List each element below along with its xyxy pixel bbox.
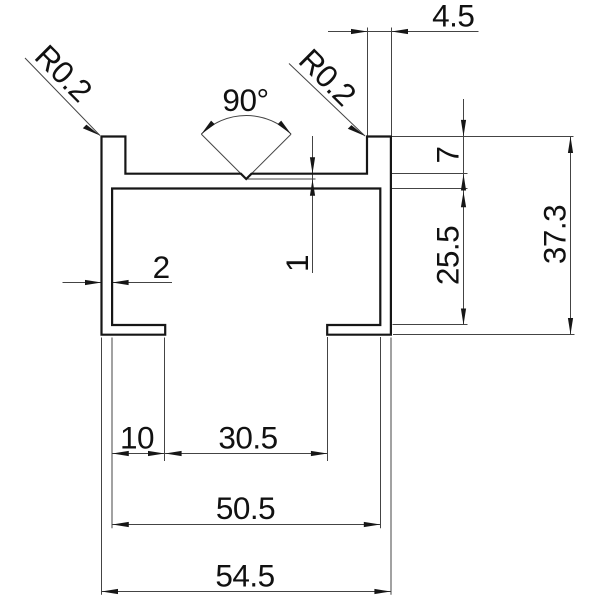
svg-text:54.5: 54.5 [215, 558, 274, 594]
svg-text:25.5: 25.5 [430, 226, 466, 285]
arrow leader R0.2 left [83, 125, 100, 136]
extension line V apex level [246, 178, 315, 180]
arrow 54.5 right [374, 589, 391, 594]
extension line flange top y=324.8 [393, 324, 468, 326]
extension line x=164.9 bottom [164, 338, 166, 462]
arrow angle arc left [201, 121, 215, 135]
arrow 54.5 left [102, 589, 119, 594]
arrow 10 right [148, 451, 165, 456]
dimension line 2 left tail [63, 282, 102, 284]
arrow leader R0.2 right [348, 125, 365, 136]
svg-text:37.3: 37.3 [537, 205, 573, 264]
angle leg left [201, 134, 246, 179]
arrow 7 top [461, 120, 466, 136]
extension line 4.5 right [391, 28, 393, 137]
svg-text:4.5: 4.5 [432, 0, 474, 34]
extension line x=327.6 bottom [327, 337, 329, 461]
dimension line 54.5 [102, 591, 391, 593]
dimension line 2 right tail [112, 282, 172, 284]
svg-text:90°: 90° [222, 82, 268, 118]
svg-text:7: 7 [430, 146, 466, 163]
profile outline [102, 137, 391, 335]
arrow 50.5 left [112, 522, 129, 527]
arrow 25.5 bottom [461, 309, 466, 326]
svg-text:R0.2: R0.2 [28, 37, 99, 108]
extension line ceiling y=188.3 [392, 188, 468, 190]
arrow 30.5 right [311, 451, 328, 456]
angle arc 90 [201, 116, 291, 135]
arrow 50.5 right [364, 522, 381, 527]
arrow 1 top [310, 157, 315, 174]
dimension line 4.5 [328, 31, 479, 33]
arrow 37.3 bottom [568, 318, 573, 335]
arrow 7 bottom [461, 174, 466, 191]
arrow angle arc right [278, 121, 292, 135]
dimension line 10 and 30.5 [112, 453, 327, 455]
svg-text:10: 10 [120, 420, 154, 456]
arrow 30.5 left [165, 451, 182, 456]
leader R0.2 right [289, 64, 365, 137]
svg-text:2: 2 [153, 249, 170, 285]
extension line bottom y=334.7 [393, 334, 575, 336]
arrow 1 bottom [310, 179, 315, 196]
arrow 4.5 right [392, 29, 409, 34]
extension line top y=136.4 [392, 136, 574, 138]
extension line top surface y=173.5 [392, 173, 468, 175]
svg-text:1: 1 [279, 255, 315, 272]
extension line x=101.5 bottom [101, 338, 103, 595]
arrow 4.5 left [351, 29, 368, 34]
extension line 4.5 left [367, 28, 369, 137]
svg-text:30.5: 30.5 [218, 420, 277, 456]
extension line x=380.5 bottom [380, 337, 382, 528]
angle leg right [246, 134, 291, 179]
svg-text:50.5: 50.5 [216, 490, 275, 526]
extension line x=112.1 bottom [111, 338, 113, 529]
arrow 2 left [85, 280, 102, 285]
leader R0.2 left [25, 58, 100, 136]
dimension line 50.5 [112, 524, 380, 526]
arrow 37.3 top [568, 137, 573, 154]
arrow 25.5 top [461, 192, 466, 208]
dimension line 37.3 [570, 137, 572, 335]
dimension line 1 vertical [312, 136, 314, 273]
arrow 2 right [112, 280, 129, 285]
dimension line 7 and 25.5 [463, 99, 465, 325]
svg-text:R0.2: R0.2 [292, 41, 363, 112]
arrow 10 left [112, 451, 129, 456]
extension line x=390.9 bottom [390, 338, 392, 595]
